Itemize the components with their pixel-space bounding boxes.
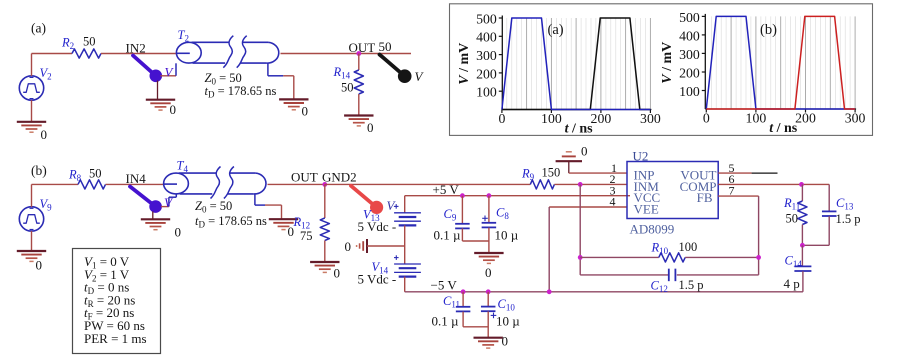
svg-text:IN2: IN2 <box>126 40 146 55</box>
wire INP ground to pin 1 <box>569 172 627 174</box>
wire T2 shield right to ground <box>267 63 269 76</box>
svg-text:0: 0 <box>498 111 505 126</box>
svg-text:(a): (a) <box>31 21 46 36</box>
svg-text:0: 0 <box>36 258 43 273</box>
ground 0 at IN2 <box>157 81 159 100</box>
ground 0 at IN4 <box>152 212 154 220</box>
wire T2 to OUT <box>281 53 412 55</box>
svg-text:0: 0 <box>581 144 588 159</box>
svg-text:+5 V: +5 V <box>433 182 460 197</box>
svg-text:IN4: IN4 <box>126 171 147 186</box>
wire R9 to INM pin <box>554 183 627 185</box>
svg-text:75: 75 <box>300 229 313 243</box>
feedback node vertical (INM) <box>579 184 581 275</box>
resistor R2 <box>72 49 101 58</box>
svg-text:0: 0 <box>41 127 48 142</box>
svg-text:0: 0 <box>302 104 309 119</box>
junction R11/C14 <box>800 243 805 248</box>
capacitor C13 <box>828 184 830 211</box>
svg-text:GND2: GND2 <box>322 170 357 185</box>
svg-text:0.1 µ: 0.1 µ <box>434 228 462 243</box>
svg-text:0: 0 <box>703 111 710 126</box>
junction node OUT <box>356 51 361 56</box>
svg-text:5 Vdc -: 5 Vdc - <box>358 219 397 234</box>
delayed pulse trace (b) <box>706 16 855 109</box>
svg-text:1.5 p: 1.5 p <box>836 212 861 226</box>
svg-text:1.5 p: 1.5 p <box>679 278 704 292</box>
ground 0 under R12 <box>310 261 339 263</box>
battery V14 5Vdc <box>394 263 421 265</box>
wire R8 to T4 <box>106 183 165 185</box>
svg-text:OUT: OUT <box>349 40 376 55</box>
input pulse trace blue (b) <box>706 16 855 109</box>
transmission line T2 <box>176 42 201 63</box>
resistor R11 <box>801 184 803 201</box>
wire probe node to T4 shield <box>161 206 169 208</box>
svg-text:5 Vdc -: 5 Vdc - <box>358 272 397 287</box>
svg-text:400: 400 <box>476 30 497 45</box>
svg-text:50: 50 <box>341 81 354 95</box>
ground 0 under V2 <box>31 100 33 121</box>
parameter box <box>73 249 161 354</box>
voltage probe at OUT (black) <box>380 55 405 77</box>
capacitor C11 <box>462 292 464 307</box>
svg-text:U2: U2 <box>633 149 649 164</box>
svg-text:0: 0 <box>367 120 374 135</box>
svg-text:100: 100 <box>476 85 497 100</box>
wire VCC rail to pin 3 <box>627 195 630 197</box>
svg-text:tD = 178.65 ns: tD = 178.65 ns <box>205 84 277 100</box>
svg-text:100: 100 <box>541 111 562 126</box>
svg-text:50: 50 <box>786 212 799 226</box>
svg-text:300: 300 <box>476 48 497 63</box>
svg-text:V / mV: V / mV <box>457 43 472 85</box>
svg-text:200: 200 <box>476 66 497 81</box>
wire R2 to T2 <box>101 53 177 55</box>
svg-text:400: 400 <box>679 28 700 43</box>
svg-text:PER = 1 ms: PER = 1 ms <box>84 331 147 346</box>
wire VEE to -5V rail <box>549 206 627 208</box>
pulse source V9 <box>19 207 43 231</box>
wire C11 bottom to C10 <box>463 326 488 328</box>
battery V13 5Vdc <box>404 196 406 213</box>
wire T4 to OUT node <box>268 183 325 185</box>
svg-text:0: 0 <box>334 266 341 281</box>
junction -5V/C10 <box>486 289 491 294</box>
svg-text:10 µ: 10 µ <box>495 228 519 243</box>
svg-text:200: 200 <box>591 111 612 126</box>
voltage probe at IN2 <box>133 56 156 76</box>
ground 0 under R14 <box>344 114 373 116</box>
junction node OUT/GND2 <box>322 182 327 187</box>
svg-text:50: 50 <box>379 39 392 54</box>
wire V2 to row <box>31 54 33 77</box>
capacitor C12 <box>580 274 669 276</box>
svg-text:0: 0 <box>345 239 352 254</box>
capacitor C14 <box>801 245 803 266</box>
capacitor C10 <box>487 292 489 307</box>
svg-text:50: 50 <box>83 35 96 49</box>
junction COMP/R11 <box>799 182 804 187</box>
resistor R9 <box>530 180 554 189</box>
svg-text:300: 300 <box>679 47 700 62</box>
gridlines (a) <box>506 18 508 110</box>
wire FB pin 7 loop <box>718 195 758 197</box>
ground 0 under C10/C11 <box>474 337 503 339</box>
junction VEE/-5V rail <box>547 289 552 294</box>
svg-text:(a): (a) <box>548 22 564 38</box>
junction -5V/C11 <box>461 289 466 294</box>
svg-text:t / ns: t / ns <box>565 122 594 137</box>
svg-text:(b): (b) <box>31 163 47 178</box>
svg-text:FB: FB <box>697 190 713 205</box>
svg-text:(b): (b) <box>760 22 777 38</box>
svg-text:OUT: OUT <box>291 170 318 185</box>
ground 0 right of T4 <box>269 218 298 220</box>
svg-text:AD8099: AD8099 <box>630 222 675 237</box>
svg-text:0: 0 <box>175 225 182 240</box>
voltage probe at IN4 <box>130 187 156 207</box>
svg-text:150: 150 <box>542 166 561 180</box>
resistor R8 <box>78 180 106 189</box>
wire V13 minus to V14 plus <box>404 225 406 264</box>
axes (b) <box>704 14 706 109</box>
svg-text:200: 200 <box>795 111 816 126</box>
resistor R12 <box>324 184 326 218</box>
resistor R14 <box>358 54 360 71</box>
ground 0 under C8/C9 <box>474 252 503 254</box>
capacitor C9 <box>461 196 463 224</box>
svg-text:0: 0 <box>502 334 509 349</box>
svg-text:0: 0 <box>485 265 492 280</box>
op-amp U2 AD8099 box <box>627 162 718 219</box>
svg-text:0.1 µ: 0.1 µ <box>432 314 460 329</box>
svg-text:100: 100 <box>679 84 700 99</box>
svg-text:10 µ: 10 µ <box>496 314 520 329</box>
wire OUT to R9 and probe tap <box>325 183 531 185</box>
wire C9 bottom to C8 <box>462 240 489 242</box>
junction R10/FB <box>756 255 761 260</box>
ground 0 above INP (inverted) <box>556 160 582 162</box>
svg-text:7: 7 <box>729 183 735 197</box>
delayed pulse trace (a) <box>502 18 651 110</box>
svg-text:100: 100 <box>679 240 698 254</box>
svg-text:500: 500 <box>476 11 497 26</box>
transmission line T4 <box>164 173 189 194</box>
wire V9 to row <box>31 184 33 207</box>
svg-text:4 p: 4 p <box>784 276 800 291</box>
ground 0 right of T2 <box>279 98 308 100</box>
junction INM node <box>578 182 583 187</box>
svg-text:500: 500 <box>679 10 700 25</box>
svg-text:300: 300 <box>640 111 661 126</box>
wire probe node to T2 shield <box>161 75 177 77</box>
junction +5V/C8 <box>487 193 492 198</box>
svg-text:4: 4 <box>610 195 616 209</box>
gridlines (b) <box>710 16 712 109</box>
resistor R10 <box>580 256 659 258</box>
svg-text:0: 0 <box>170 102 177 117</box>
capacitor C8 <box>488 196 490 223</box>
junction INM/R10 <box>578 255 583 260</box>
ground 0 between batteries (rotated) <box>366 239 368 253</box>
wire VOUT pin 5 <box>718 172 751 174</box>
svg-text:200: 200 <box>679 65 700 80</box>
axes (a) <box>501 16 503 110</box>
svg-text:t / ns: t / ns <box>769 121 798 136</box>
inset plot frame <box>450 4 873 136</box>
+5V rail <box>405 195 627 197</box>
svg-text:V / mV: V / mV <box>660 42 675 84</box>
pulse source V2 <box>19 76 43 100</box>
voltage probe V at GND2 (red) <box>351 186 377 208</box>
wire R11/C13 bottom node <box>802 244 829 246</box>
wire V14 minus to -5V rail <box>404 277 406 292</box>
-5V rail <box>405 291 803 293</box>
svg-text:100: 100 <box>746 111 767 126</box>
wire COMP pin 6 to R11/C13 <box>718 183 829 185</box>
svg-text:tD = 178.65 ns: tD = 178.65 ns <box>195 214 267 230</box>
input pulse trace blue (a) <box>502 18 651 110</box>
junction +5V/C9 <box>460 193 465 198</box>
wire T4 shield right to ground <box>254 194 256 205</box>
svg-text:−5 V: −5 V <box>431 278 458 293</box>
svg-text:Z0 = 50: Z0 = 50 <box>195 199 232 215</box>
svg-text:50: 50 <box>89 167 102 181</box>
svg-text:300: 300 <box>845 111 866 126</box>
svg-text:VEE: VEE <box>634 201 659 216</box>
ground 0 under V9 <box>31 231 33 251</box>
